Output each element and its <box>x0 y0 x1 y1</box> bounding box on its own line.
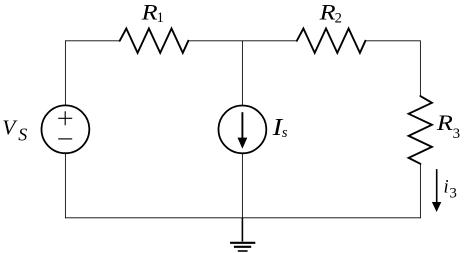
wire bottom rail <box>65 217 421 219</box>
wire right rail lower <box>419 164 421 218</box>
wire top rail right segment <box>365 40 420 42</box>
wire right rail upper <box>419 40 421 96</box>
svg-text:S: S <box>18 124 27 144</box>
ground bar 3 <box>238 250 248 252</box>
svg-text:V: V <box>2 116 18 140</box>
current source arrow shaft <box>241 112 243 140</box>
svg-text:3: 3 <box>449 185 457 201</box>
resistor R1 zigzag <box>120 29 189 53</box>
wire left rail lower <box>64 154 66 218</box>
wire top rail middle segment <box>188 40 296 42</box>
voltage source VS circle <box>42 105 90 153</box>
ground bar 1 <box>230 242 255 244</box>
current source IS circle <box>219 105 267 153</box>
svg-text:R: R <box>318 0 336 25</box>
svg-text:2: 2 <box>335 11 342 27</box>
voltage source plus sign <box>58 111 72 125</box>
current i3 arrow shaft <box>436 169 438 203</box>
wire left rail upper <box>64 40 66 104</box>
svg-text:s: s <box>282 125 288 141</box>
svg-text:i: i <box>444 178 449 198</box>
svg-text:1: 1 <box>157 10 164 26</box>
wire middle vertical upper <box>241 41 243 105</box>
voltage source minus sign <box>58 138 72 140</box>
ground bar 2 <box>234 246 251 248</box>
wire middle vertical lower <box>241 154 243 218</box>
wire top rail left segment <box>65 40 119 42</box>
current source arrowhead <box>238 138 248 149</box>
svg-text:3: 3 <box>453 126 461 142</box>
current i3 arrowhead <box>432 202 441 212</box>
resistor R3 zigzag vertical <box>409 96 432 164</box>
ground stub wire <box>241 218 243 242</box>
svg-text:R: R <box>436 110 454 135</box>
resistor R2 zigzag <box>297 29 366 53</box>
svg-text:R: R <box>140 0 158 25</box>
